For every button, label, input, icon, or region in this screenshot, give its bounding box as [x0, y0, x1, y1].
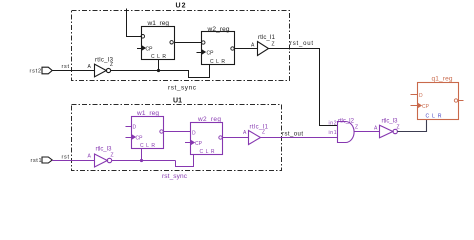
- svg-text:rtlc_I1: rtlc_I1: [258, 35, 276, 41]
- svg-text:Z: Z: [110, 62, 113, 68]
- flip-flop q1_reg: [411, 83, 464, 120]
- wire AND Z to inverter A: [354, 131, 379, 133]
- svg-text:Z: Z: [111, 153, 114, 159]
- svg-text:rst_sync: rst_sync: [162, 173, 188, 180]
- svg-text:CP: CP: [136, 136, 144, 142]
- wire w1_reg Q to w2_reg D (U1): [164, 131, 191, 133]
- svg-text:rst_out: rst_out: [282, 132, 303, 138]
- flip-flop w1_reg (U2): [137, 27, 175, 60]
- svg-text:CP: CP: [422, 104, 430, 110]
- wire inverter Z to CLR pins (U2): [111, 70, 189, 72]
- svg-text:q1_reg: q1_reg: [432, 76, 453, 83]
- wire jog to w2_reg CLR (U1): [176, 154, 194, 167]
- svg-text:Z: Z: [262, 130, 265, 136]
- svg-text:U2: U2: [176, 3, 186, 10]
- flip-flop w2_reg (U2): [197, 32, 235, 65]
- svg-text:w1_reg: w1_reg: [147, 20, 170, 27]
- AND gate rtlc_I2: [338, 122, 355, 143]
- svg-text:Z: Z: [355, 125, 358, 131]
- svg-text:w2_reg: w2_reg: [207, 26, 230, 33]
- flip-flop w1_reg (U1): [126, 117, 164, 149]
- inverter rtlc_I3 (U1): [95, 154, 112, 167]
- wire jog to w2_reg CLR (U2): [189, 64, 210, 78]
- svg-text:D: D: [419, 93, 423, 99]
- junction dot (U1 clr net): [140, 159, 143, 162]
- flip-flop w2_reg (U1): [185, 123, 223, 155]
- wire rst_out (U2) buffer Z to AND in2: [269, 49, 338, 126]
- wire w1_reg Q to w2_reg D (U2): [175, 42, 202, 44]
- svg-text:CP: CP: [195, 141, 203, 147]
- wire stub junction to w1_reg CLR (U2): [158, 59, 160, 71]
- svg-text:rst1: rst1: [31, 158, 42, 164]
- svg-text:rst_sync: rst_sync: [168, 85, 197, 92]
- module box U2 (rst_sync instance, dashed border): [72, 11, 290, 81]
- svg-text:Z: Z: [272, 42, 275, 48]
- wire rst2 to inverter A (net rst): [52, 70, 94, 72]
- buffer rtlc_I1 (U2): [258, 42, 269, 56]
- svg-text:CLR: CLR: [200, 149, 215, 155]
- svg-text:D: D: [192, 131, 196, 137]
- buffer rtlc_I1 (U1): [249, 131, 261, 145]
- svg-text:rtlc_I1: rtlc_I1: [250, 125, 269, 131]
- module box U1 (rst_sync instance, dashed border): [72, 105, 282, 171]
- svg-text:U1: U1: [173, 98, 182, 105]
- svg-text:rst: rst: [62, 64, 70, 70]
- svg-text:w2_reg: w2_reg: [197, 116, 221, 123]
- inverter rtlc_I3 (U2): [95, 64, 111, 77]
- svg-text:CLR: CLR: [151, 54, 166, 60]
- wire rst1 to inverter A (net rst U1): [52, 160, 94, 162]
- wire rst_out (U1) buffer Z to AND in1: [260, 137, 338, 139]
- svg-text:rtlc_I2: rtlc_I2: [338, 119, 355, 125]
- svg-text:CP: CP: [146, 47, 154, 53]
- svg-text:w1_reg: w1_reg: [136, 110, 159, 117]
- svg-text:rst: rst: [62, 155, 70, 161]
- wire from U2 top boundary to w1_reg D: [127, 9, 142, 37]
- port rst1: [42, 157, 52, 163]
- wire w2_reg Q to buffer A (U1): [223, 137, 249, 139]
- svg-text:in2: in2: [329, 121, 337, 127]
- wire inverter Z to CLR pins (U1): [112, 160, 176, 162]
- port rst2: [42, 67, 52, 74]
- wire w2_reg Q to buffer A (U2): [235, 48, 258, 50]
- svg-text:Z: Z: [397, 125, 400, 131]
- wire inverter Z to q1_reg CLR: [397, 120, 426, 132]
- svg-text:rst_out: rst_out: [290, 41, 313, 47]
- wire stub junction to w1_reg CLR (U1): [141, 148, 143, 161]
- svg-text:CP: CP: [207, 51, 215, 57]
- junction dot (U2 clr net): [157, 69, 160, 72]
- svg-text:in1: in1: [329, 130, 337, 136]
- svg-text:D: D: [133, 125, 137, 131]
- inverter rtlc_I3 (output): [380, 125, 398, 138]
- svg-text:CLR: CLR: [140, 143, 155, 149]
- svg-text:CLR: CLR: [426, 114, 442, 120]
- svg-text:rst2: rst2: [30, 69, 42, 75]
- svg-text:CLR: CLR: [210, 59, 225, 65]
